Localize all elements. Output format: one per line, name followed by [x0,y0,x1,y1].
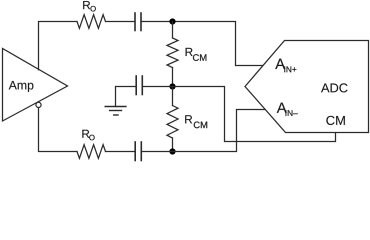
wire node A to ADC AIN+ pin [141,22,264,66]
node C junction dot [169,148,175,154]
resistor RO2 (bottom) [77,145,106,159]
capacitor C3 (bottom) [135,142,141,161]
wire node B to RCM2 [172,87,174,106]
node B junction dot [169,83,175,89]
wire node A down to RCM1 [172,22,174,39]
label Amp [9,81,34,92]
resistor RCM2 (lower common-mode) [167,106,178,139]
wire amp noninverting output to top rail [39,22,78,70]
wire capacitor C2 to ground [116,87,137,107]
capacitor C2 (bypass to ground) [136,76,142,95]
wire RCM2 to node C [172,138,174,152]
wire resistor RO1 to capacitor C1 [106,21,136,23]
label pin AIN+ [275,59,285,69]
resistor RCM1 (upper common-mode) [167,38,178,68]
wire amp inverting output to bottom rail [39,108,78,152]
label RO2 [82,130,89,138]
wire node C to ADC AIN- pin [141,110,266,152]
amp inverting output bubble [36,102,41,107]
ADC U2 body [245,41,369,133]
label ADC [321,83,348,92]
label pin AIN- [277,103,287,113]
wire resistor RO2 to capacitor C3 [106,151,136,153]
ground [105,107,126,116]
op-amp U1 Amp [3,49,68,122]
capacitor C1 (top) [135,13,141,31]
label pin CM [326,116,344,125]
wire node B to ADC CM pin [173,87,336,142]
label RCM1 [186,48,193,56]
label RO1 [83,1,90,9]
wire RCM1 to node B [172,68,174,87]
wire capacitor C2 to node B [142,86,172,88]
resistor RO1 (top) [77,15,106,29]
node A junction dot [169,18,175,24]
label RCM2 [185,115,192,123]
